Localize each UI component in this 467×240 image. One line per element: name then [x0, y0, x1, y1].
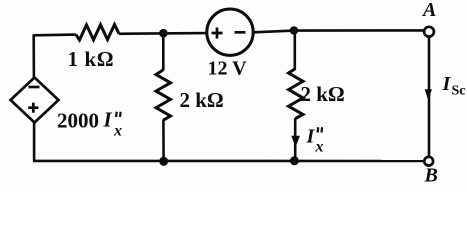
svg-text:1 kΩ: 1 kΩ — [68, 47, 115, 71]
wire middle branch upper — [162, 33, 165, 70]
label Ix'' current — [306, 126, 324, 156]
svg-text:2000: 2000 — [57, 109, 99, 133]
terminal A circle — [424, 27, 434, 37]
label 1 kOhm — [68, 47, 115, 71]
wire right-middle branch upper — [293, 31, 296, 70]
node junction dot top-middle — [159, 29, 168, 38]
svg-text:B: B — [424, 165, 438, 187]
current arrow Isc head — [425, 89, 432, 100]
svg-text:x: x — [113, 123, 122, 140]
label B — [424, 165, 438, 187]
svg-text:I: I — [442, 73, 452, 95]
label Isc current — [442, 73, 466, 99]
svg-text:Sc: Sc — [452, 84, 466, 99]
svg-text:A: A — [421, 0, 436, 21]
voltage source minus sign — [235, 31, 246, 34]
svg-text:2 kΩ: 2 kΩ — [301, 82, 345, 106]
label 2000 Ix'' — [57, 108, 122, 140]
node junction dot bottom-middle — [159, 157, 168, 166]
current arrow Ix'' head — [291, 136, 300, 147]
label 2 kOhm middle — [180, 88, 224, 112]
voltage source plus sign — [212, 28, 223, 39]
wire left vertical lower — [33, 123, 36, 162]
svg-text:I: I — [306, 126, 316, 148]
wire right-middle branch lower — [294, 118, 297, 161]
label 12 V — [208, 58, 248, 80]
node junction dot top-right — [290, 26, 299, 35]
wire top-left horizontal — [34, 33, 77, 36]
voltage source V1 circle — [207, 9, 253, 55]
wire left vertical upper — [32, 34, 35, 78]
svg-text:I: I — [103, 108, 113, 132]
wire source to node top-right — [253, 30, 424, 32]
wire right branch A to B — [428, 37, 431, 156]
label A — [421, 0, 436, 21]
resistor R1 1 kOhm zigzag — [76, 25, 119, 41]
resistor R3 2 kOhm right zigzag — [289, 69, 304, 119]
label 2 kOhm right — [301, 82, 345, 106]
wire resistor to source — [119, 32, 207, 35]
dependent source plus sign — [28, 103, 38, 113]
svg-text:12 V: 12 V — [208, 58, 248, 80]
dependent source minus sign — [29, 86, 40, 89]
svg-text:x: x — [315, 139, 324, 156]
terminal B circle — [424, 157, 433, 166]
svg-text:2 kΩ: 2 kΩ — [180, 88, 224, 112]
wire bottom horizontal — [33, 160, 424, 163]
resistor R2 2 kOhm middle zigzag — [156, 70, 171, 120]
node junction dot bottom-right — [290, 156, 299, 165]
dependent source U1 diamond — [11, 78, 59, 123]
wire middle branch lower — [162, 120, 165, 161]
